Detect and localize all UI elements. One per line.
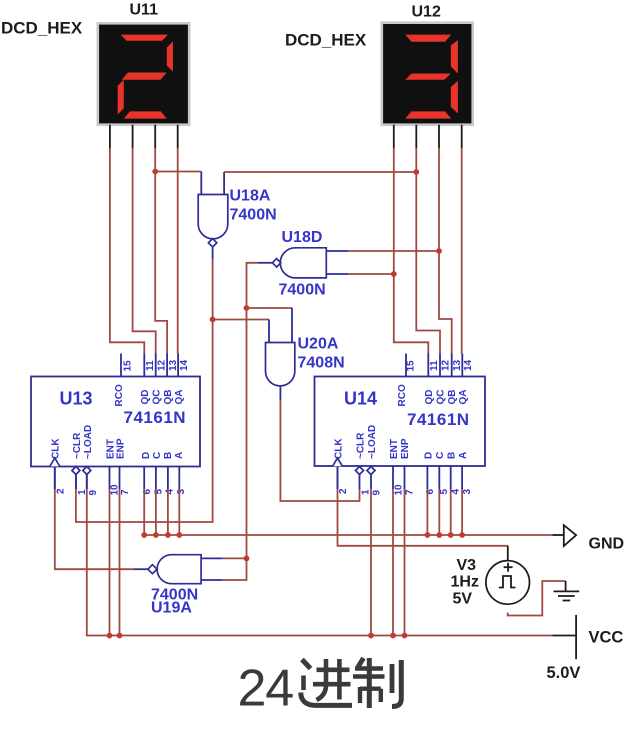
wire U13 ~CLR stub — [75, 475, 77, 490]
svg-text:13: 13 — [452, 359, 463, 371]
wire U13 B to GND — [167, 489, 169, 535]
svg-text:VCC: VCC — [589, 629, 624, 647]
U13 pin numbers top: 15 11 12 13 14 — [123, 359, 191, 371]
svg-text:~LOAD: ~LOAD — [83, 425, 94, 459]
svg-text:CLK: CLK — [51, 438, 62, 459]
wire U12 pin3 to U14 pin13 — [439, 148, 452, 354]
svg-text:QC: QC — [435, 390, 446, 405]
junction U14 D on GND — [425, 532, 431, 538]
wire U14 ~LOAD to VCC — [370, 489, 372, 636]
svg-text:QB: QB — [447, 390, 458, 405]
svg-text:10: 10 — [394, 484, 405, 496]
svg-text:3: 3 — [462, 489, 473, 495]
V3 plus sign — [504, 563, 513, 572]
svg-text:C: C — [152, 452, 163, 459]
wire U18D output node to U20A input B — [247, 307, 293, 309]
svg-text:B: B — [447, 452, 458, 459]
U18A output bubble — [208, 239, 216, 247]
wire U18A input B stub — [223, 172, 225, 195]
svg-text:U14: U14 — [344, 389, 377, 409]
wire U20A output to U14 ~CLR — [280, 400, 359, 501]
svg-text:~LOAD: ~LOAD — [367, 425, 378, 459]
svg-text:QA: QA — [458, 390, 469, 405]
U12 segment top-right — [451, 40, 458, 74]
svg-text:1: 1 — [361, 489, 372, 495]
U11 segment middle — [122, 73, 167, 80]
junction U14 C on GND — [436, 532, 442, 538]
earth ground symbol — [554, 581, 580, 601]
NAND gate U19A (horizontal, output left) — [148, 555, 201, 584]
svg-text:13: 13 — [168, 359, 179, 371]
VCC terminal bar — [575, 615, 577, 659]
svg-text:9: 9 — [88, 490, 99, 496]
junction U13 A on GND — [176, 532, 182, 538]
GND terminal lead — [552, 534, 564, 536]
junction U12 pin3 / U18D A — [436, 248, 442, 254]
U11 pins — [110, 125, 178, 149]
wire U13 ENP to VCC — [119, 489, 121, 636]
wire U18D output down to U19A input B — [223, 263, 258, 580]
U11 segment top-right — [167, 42, 173, 72]
svg-text:U13: U13 — [60, 389, 93, 409]
U13 pin numbers bottom: 2 1 9 10 7 6 5 4 3 — [56, 484, 188, 496]
U12 segment bottom-right — [451, 81, 458, 114]
NAND gate U18D (horizontal, output left) — [272, 248, 326, 278]
junction U13 ENT on VCC — [107, 633, 113, 639]
svg-text:11: 11 — [429, 360, 440, 371]
junction U14 A on GND — [459, 532, 465, 538]
NAND gate U18A (vertical, output down) — [198, 195, 228, 248]
seven-segment display U12 (shows 3) — [382, 23, 473, 125]
U14 pin numbers bottom: 2 1 9 10 7 6 5 4 3 — [338, 484, 473, 496]
svg-text:QD: QD — [424, 390, 435, 405]
wire U18A input A stub — [200, 172, 202, 195]
svg-text:U20A: U20A — [298, 336, 339, 353]
svg-text:14: 14 — [463, 359, 474, 371]
junction U12 pin1 / U18D B — [391, 271, 397, 277]
svg-text:QD: QD — [140, 390, 151, 405]
U13 bottom pin stubs — [55, 467, 180, 490]
svg-text:4: 4 — [451, 489, 462, 495]
counter IC U13 74161N — [31, 377, 200, 467]
seven-segment display U11 (shows 2) — [98, 23, 189, 124]
clock source V3 circle — [486, 561, 530, 605]
wire U19A output to U13 CLK — [55, 489, 134, 569]
svg-text:ENT: ENT — [389, 439, 400, 459]
svg-text:7408N: 7408N — [298, 355, 345, 372]
junction U13 B on GND — [165, 532, 171, 538]
svg-text:1Hz: 1Hz — [451, 574, 479, 591]
U12 segment middle — [405, 74, 451, 80]
svg-text:B: B — [163, 452, 174, 459]
svg-text:9: 9 — [372, 490, 383, 496]
junction U14 B on GND — [448, 532, 454, 538]
title character JIN (drawn strokes) — [301, 659, 352, 705]
wire U13 ~LOAD stub — [86, 475, 88, 490]
junction U13 C on GND — [153, 532, 159, 538]
svg-text:V3: V3 — [457, 557, 477, 574]
U12 segment top — [405, 35, 451, 42]
svg-text:U19A: U19A — [151, 600, 192, 617]
wire U19A input A stub — [201, 557, 223, 559]
wire U19A input A to U18D output wire — [223, 557, 247, 559]
svg-text:4: 4 — [165, 489, 176, 495]
svg-text:5.0V: 5.0V — [547, 664, 581, 682]
wire U13 C to GND — [155, 489, 157, 535]
wire node to U18A input A — [155, 171, 201, 173]
svg-text:U18D: U18D — [282, 229, 323, 246]
svg-text:DCD_HEX: DCD_HEX — [1, 19, 83, 38]
wire U20A output stub — [279, 386, 281, 400]
wire U13 CLK stub — [54, 467, 56, 490]
wire U18D input A to U12 pin3 wire — [348, 250, 439, 252]
U11 segment bottom — [124, 111, 167, 118]
svg-text:7400N: 7400N — [230, 207, 277, 224]
svg-text:RCO: RCO — [114, 384, 125, 406]
svg-text:12: 12 — [157, 359, 168, 371]
wire U12 pin1 to U14 pin11 — [394, 148, 429, 354]
wire U14 ENP to VCC — [404, 489, 406, 636]
svg-text:C: C — [435, 452, 446, 459]
U12 pins — [394, 125, 462, 149]
wire U20A input A stub — [268, 320, 270, 343]
wire U18D input B stub — [326, 273, 348, 275]
svg-text:7400N: 7400N — [279, 282, 326, 299]
wire U13 D to GND — [143, 489, 145, 535]
svg-text:CLK: CLK — [334, 438, 345, 459]
svg-text:D: D — [424, 452, 435, 459]
wire U14 B to GND — [450, 489, 452, 535]
junction U14 ENT on VCC — [390, 633, 396, 639]
U14 pin numbers top: 15 11 12 13 14 — [406, 359, 474, 371]
U14 top pin stubs — [406, 354, 462, 377]
wire U19A input B stub — [201, 579, 223, 581]
svg-text:RCO: RCO — [397, 384, 408, 406]
wire U20A input B stub — [291, 308, 293, 343]
svg-text:5: 5 — [439, 489, 450, 495]
wire U18A input B to U12 pin2 wire — [224, 171, 416, 173]
junction U18D out / U19A A — [244, 556, 250, 562]
wire U14 A to GND — [461, 489, 463, 535]
counter IC U14 74161N — [315, 377, 486, 467]
svg-text:74161N: 74161N — [407, 410, 470, 429]
wire U18D input A stub — [326, 250, 348, 252]
U14 bottom pin stubs — [338, 467, 463, 490]
wire U14 CLK stub — [337, 467, 339, 490]
junction U14 ENP on VCC — [402, 633, 408, 639]
svg-text:2: 2 — [56, 488, 67, 494]
wire U18A output down and to U13 ~CLR — [76, 259, 213, 522]
svg-text:U11: U11 — [130, 2, 159, 19]
svg-text:QB: QB — [163, 390, 174, 405]
svg-text:QA: QA — [174, 390, 185, 405]
svg-text:11: 11 — [145, 360, 156, 371]
wire U11 pin1 to U13 pin11 — [110, 148, 144, 354]
U14 ~CLR bubble — [356, 467, 364, 475]
wire U11 pin2 to U13 pin12 — [133, 148, 156, 354]
wire U14 D to GND — [426, 489, 428, 535]
U19A output bubble — [148, 565, 157, 574]
svg-text:2: 2 — [338, 488, 349, 494]
U13 ~CLR bubble — [72, 467, 80, 475]
junction U14 ~LOAD on VCC — [368, 633, 374, 639]
junction U11 pin3 / U18A A — [152, 169, 158, 175]
svg-text:74161N: 74161N — [124, 408, 187, 427]
wire GND net horizontal — [142, 534, 552, 536]
wire U13 A to GND — [178, 489, 180, 535]
junction U18D out / U20A B — [244, 305, 250, 311]
wire U18A output node to U20A input A — [213, 319, 269, 321]
svg-text:GND: GND — [589, 536, 625, 553]
wire U12 pin4 to U14 pin14 — [461, 148, 463, 354]
U13 ~LOAD bubble — [83, 467, 91, 475]
svg-text:A: A — [174, 452, 185, 459]
junction U18A out / U20A A — [210, 317, 216, 323]
junction U13 ENP on VCC — [117, 633, 123, 639]
svg-text:15: 15 — [123, 360, 134, 372]
U11 segment bottom-left — [118, 80, 124, 115]
U14 CLK edge triangle — [333, 458, 343, 466]
wire V3 bottom to earth ground — [508, 581, 566, 616]
U12 segment bottom — [405, 111, 451, 118]
svg-text:15: 15 — [406, 360, 417, 372]
svg-text:~CLR: ~CLR — [72, 432, 83, 459]
svg-text:A: A — [458, 452, 469, 459]
svg-text:U18A: U18A — [230, 188, 271, 205]
svg-text:12: 12 — [441, 359, 452, 371]
U13 CLK edge triangle — [50, 458, 60, 466]
junction U13 D on GND — [141, 532, 147, 538]
junction U12 pin2 / U18A B — [413, 169, 419, 175]
wire U12 pin2 to U14 pin12 — [416, 148, 440, 354]
U11 segment top — [121, 35, 168, 41]
wire U14 ENT to VCC — [392, 489, 394, 636]
VCC terminal lead — [552, 635, 576, 637]
svg-text:ENP: ENP — [400, 438, 411, 459]
svg-text:7: 7 — [120, 489, 131, 495]
svg-text:ENP: ENP — [116, 438, 127, 459]
AND gate U20A (vertical, output down) — [266, 343, 295, 386]
svg-text:14: 14 — [179, 359, 190, 371]
GND terminal triangle — [564, 525, 576, 546]
wire VCC net horizontal from U13 ~LOAD — [87, 489, 553, 636]
svg-text:7: 7 — [405, 489, 416, 495]
svg-text:QC: QC — [152, 390, 163, 405]
wire U18A output stub — [212, 247, 214, 259]
svg-text:~CLR: ~CLR — [356, 432, 367, 459]
svg-text:24: 24 — [238, 660, 294, 718]
U13 top pin stubs — [121, 354, 178, 377]
svg-text:D: D — [141, 452, 152, 459]
wire U18D input B to U12 pin1 wire — [348, 273, 394, 275]
svg-text:U12: U12 — [412, 4, 441, 21]
wire U19A output stub — [134, 568, 148, 570]
wire U11 pin4 to U13 pin14 — [177, 148, 179, 354]
wire U14 C to GND — [438, 489, 440, 535]
wire U18D output stub — [258, 262, 272, 264]
U18D output bubble — [272, 259, 280, 267]
wire V3 top lead — [507, 546, 509, 561]
V3 square wave symbol — [499, 576, 516, 588]
svg-text:DCD_HEX: DCD_HEX — [285, 31, 367, 50]
wire U13 ENT to VCC — [109, 489, 111, 636]
svg-text:3: 3 — [176, 489, 187, 495]
wire U14 CLK to V3 — [338, 489, 508, 546]
U14 ~LOAD bubble — [367, 467, 375, 475]
svg-text:5V: 5V — [453, 591, 473, 608]
wire U11 pin3 to U13 pin13 — [155, 148, 167, 354]
title character ZHI (drawn strokes) — [353, 658, 401, 708]
